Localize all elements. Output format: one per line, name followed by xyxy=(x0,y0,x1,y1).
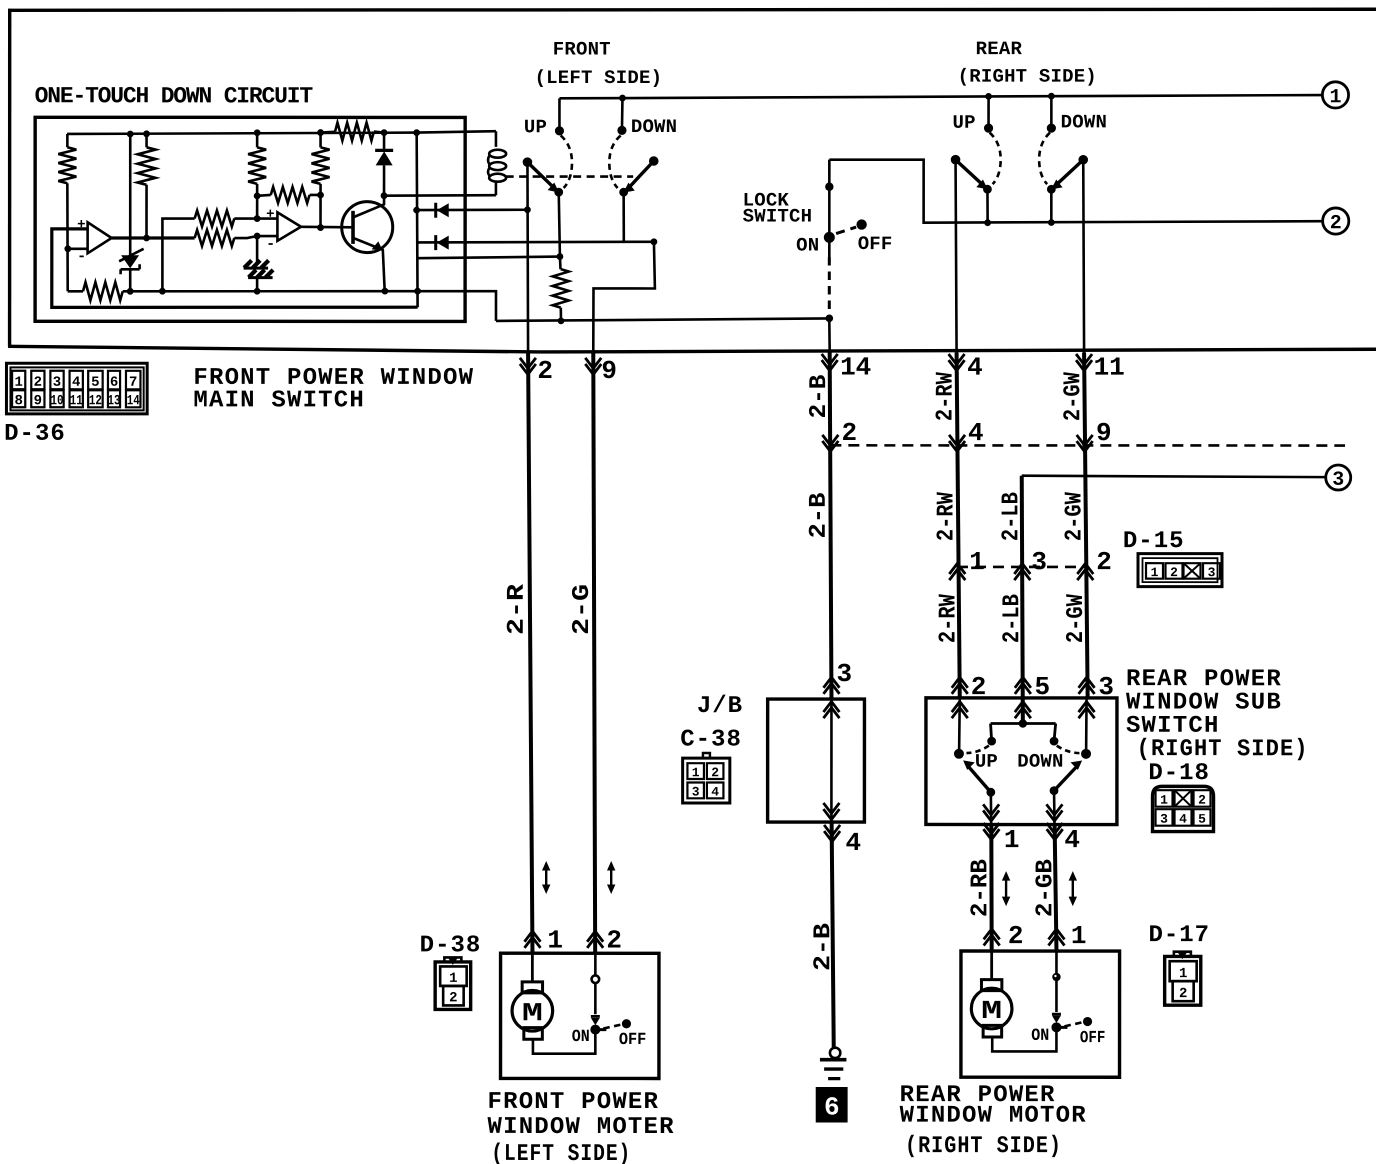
svg-text:3: 3 xyxy=(1160,812,1168,827)
rear power window motor OFF contact xyxy=(1064,1023,1081,1027)
front power window motor motor M xyxy=(531,953,534,982)
svg-text:2-B: 2-B xyxy=(810,923,837,971)
rear power window motor box xyxy=(961,951,1120,1077)
svg-text:9: 9 xyxy=(601,356,617,386)
rear left pole xyxy=(951,155,961,165)
svg-text:8: 8 xyxy=(14,393,22,409)
svg-text:DOWN: DOWN xyxy=(1061,111,1107,133)
svg-text:4: 4 xyxy=(711,785,719,800)
pin 9 mark (front switch) xyxy=(585,358,601,375)
svg-text:2-GW: 2-GW xyxy=(1063,594,1090,644)
svg-text:ONE-TOUCH DOWN CIRCUIT: ONE-TOUCH DOWN CIRCUIT xyxy=(35,83,314,109)
sub switch UP movable contact xyxy=(967,765,991,793)
connector D-36 xyxy=(6,363,147,414)
svg-text:FRONT POWER: FRONT POWER xyxy=(488,1089,660,1116)
rear dashed arc DOWN xyxy=(1039,133,1050,185)
svg-text:5: 5 xyxy=(1198,812,1206,827)
svg-text:7: 7 xyxy=(129,375,137,391)
svg-text:2: 2 xyxy=(1179,986,1187,1002)
UP contact column with resistor RS xyxy=(559,192,560,256)
terminal 3 xyxy=(1326,465,1351,490)
right vertical node wire xyxy=(413,129,420,136)
sub switch UP fixed contact xyxy=(987,737,996,746)
dashed arc DOWN xyxy=(609,135,620,188)
sub switch dashed arc right xyxy=(1057,746,1080,754)
svg-text:6: 6 xyxy=(824,1093,840,1123)
rail C xyxy=(496,318,829,321)
svg-text:+: + xyxy=(77,217,85,233)
svg-text:10: 10 xyxy=(50,393,63,409)
wire 2-GB xyxy=(1055,825,1057,952)
svg-text:2-RW: 2-RW xyxy=(933,372,960,422)
svg-text:4: 4 xyxy=(968,418,984,448)
resistor R2 xyxy=(143,130,150,137)
ground symbol xyxy=(830,1048,840,1058)
DOWN contact column xyxy=(622,192,625,242)
op-amp U2 input wires xyxy=(257,217,277,220)
svg-text:UP: UP xyxy=(524,116,547,138)
op-amp U1 inverting input wire xyxy=(68,247,88,250)
svg-text:2: 2 xyxy=(1170,565,1178,580)
front power window motor ON contact xyxy=(590,1025,600,1035)
pin 4 mark (row) xyxy=(949,435,965,452)
svg-text:2-GB: 2-GB xyxy=(1032,859,1059,917)
pin 14 mark xyxy=(822,354,838,371)
svg-text:2-LB: 2-LB xyxy=(999,594,1026,643)
pin 2 mark (row) xyxy=(822,435,838,452)
bottom rail A xyxy=(123,291,496,321)
op-amp U2 xyxy=(277,212,301,241)
svg-text:2: 2 xyxy=(841,418,857,448)
svg-text:(RIGHT SIDE): (RIGHT SIDE) xyxy=(958,66,1097,88)
pin 5 mark (sub top) xyxy=(1015,677,1031,694)
svg-text:14: 14 xyxy=(840,353,871,383)
svg-text:3: 3 xyxy=(53,375,61,391)
pin 11 mark xyxy=(1076,354,1092,371)
connector D-18 xyxy=(1153,786,1214,831)
resistor R1 xyxy=(66,134,69,147)
svg-text:3: 3 xyxy=(692,785,700,800)
svg-text:WINDOW MOTER: WINDOW MOTER xyxy=(488,1114,675,1141)
svg-text:1: 1 xyxy=(449,971,457,987)
staircase wire to 2-G xyxy=(593,242,655,352)
front UP contact xyxy=(558,98,561,131)
svg-text:1: 1 xyxy=(1329,86,1341,109)
svg-text:ON: ON xyxy=(1031,1027,1049,1046)
op-amp U2 output wire xyxy=(301,225,353,228)
svg-text:WINDOW MOTOR: WINDOW MOTOR xyxy=(900,1103,1087,1130)
pin 4 mark (J/B bottom) xyxy=(824,825,840,842)
rear pole columns down xyxy=(955,160,956,353)
svg-text:REAR: REAR xyxy=(976,38,1023,60)
collector node wire to coil xyxy=(384,194,496,197)
svg-text:2-RB: 2-RB xyxy=(967,859,994,917)
rear power window motor ON contact xyxy=(1051,1022,1061,1032)
diode D1 xyxy=(381,129,388,136)
svg-text:9: 9 xyxy=(34,393,42,409)
movable contact DOWN xyxy=(627,161,654,190)
connector D-15 xyxy=(1138,554,1222,587)
resistor R8 xyxy=(195,230,235,246)
resistor R9 (top right horizontal) xyxy=(321,130,336,133)
wire 2-B (upper) xyxy=(830,352,832,699)
node op-amp1 inverting input xyxy=(64,245,71,252)
svg-text:(RIGHT SIDE): (RIGHT SIDE) xyxy=(905,1133,1062,1160)
svg-text:D-36: D-36 xyxy=(4,421,66,448)
svg-text:1: 1 xyxy=(547,925,563,955)
border frame top xyxy=(8,9,1376,11)
resistor R4 xyxy=(317,129,324,136)
pin 2 mark (D-15) xyxy=(1077,564,1093,581)
svg-text:MAIN SWITCH: MAIN SWITCH xyxy=(193,387,365,414)
svg-text:2: 2 xyxy=(1096,547,1112,577)
svg-text:3: 3 xyxy=(1031,547,1047,577)
pin 4 mark (sub bottom) xyxy=(1047,823,1063,840)
front power window motor OFF contact xyxy=(603,1025,620,1029)
svg-text:J/B: J/B xyxy=(697,693,743,720)
svg-text:11: 11 xyxy=(1094,353,1125,383)
lock switch ON contact xyxy=(824,232,835,243)
svg-text:M: M xyxy=(522,998,543,1028)
wire from box to UP contact column xyxy=(417,257,560,259)
svg-text:1: 1 xyxy=(1071,921,1087,951)
sub switch left pole xyxy=(954,749,964,759)
rear right pole xyxy=(1078,155,1088,165)
dashed connector row xyxy=(830,444,1345,447)
updown arrow (2-R) xyxy=(545,868,547,887)
ground ref box 6 xyxy=(816,1087,848,1123)
front power window motor box xyxy=(501,953,659,1078)
svg-text:+: + xyxy=(266,207,274,223)
wire 2-G xyxy=(593,352,595,953)
svg-text:9: 9 xyxy=(1096,418,1112,448)
svg-text:M: M xyxy=(981,996,1002,1026)
svg-text:1: 1 xyxy=(1151,565,1159,580)
lock switch top wire to terminal 2 xyxy=(829,160,1322,223)
sub switch pole feed columns xyxy=(959,698,1086,749)
rear power window motor internal wire xyxy=(992,1027,1056,1051)
svg-text:14: 14 xyxy=(127,393,140,409)
wire 2-GW (upper) xyxy=(1084,352,1088,698)
svg-text:1: 1 xyxy=(14,375,22,391)
svg-text:4: 4 xyxy=(846,828,862,858)
svg-text:2-RW: 2-RW xyxy=(935,594,962,644)
connector D-17 xyxy=(1174,952,1191,956)
pin 2 mark (sub top) xyxy=(952,677,968,694)
zener column wire xyxy=(129,134,132,255)
front DOWN contact xyxy=(621,98,624,130)
border frame left xyxy=(8,9,12,347)
svg-text:2-G: 2-G xyxy=(569,584,596,635)
svg-text:1: 1 xyxy=(692,765,700,780)
pin 4 mark xyxy=(949,354,965,371)
wire 2-RB xyxy=(989,825,993,952)
movable contact UP xyxy=(527,162,556,190)
svg-text:12: 12 xyxy=(89,393,102,409)
svg-text:2-LB: 2-LB xyxy=(998,492,1025,541)
zener diode Z1 xyxy=(121,255,139,268)
pin 1 mark (rear motor) xyxy=(1048,929,1064,946)
terminal 1 xyxy=(1322,82,1348,108)
resistor R7 xyxy=(195,211,235,227)
svg-text:1: 1 xyxy=(1179,966,1187,982)
op-amp U1 output wire xyxy=(112,236,195,239)
svg-text:2-B: 2-B xyxy=(806,375,833,419)
updown arrow (2-G) xyxy=(610,868,612,887)
pin 3 mark (D-15) xyxy=(1014,564,1030,581)
one-touch circuit box xyxy=(35,117,465,321)
pin 1 mark (front motor) xyxy=(524,931,540,948)
wire 2-B (lower) xyxy=(832,822,834,1047)
upper diode D2 row xyxy=(413,207,420,214)
svg-text:D-17: D-17 xyxy=(1148,922,1210,949)
lock switch fixed contact xyxy=(828,160,831,238)
op-amp U1 xyxy=(88,222,112,253)
rear power window motor motor M xyxy=(990,951,993,980)
svg-text:2-RW: 2-RW xyxy=(934,492,961,542)
svg-text:4: 4 xyxy=(72,375,80,391)
left pole column down xyxy=(526,162,529,352)
svg-text:DOWN: DOWN xyxy=(631,116,677,138)
front right pole xyxy=(649,156,659,166)
rear dashed arc UP xyxy=(990,133,1001,185)
pin 2 mark (front motor) xyxy=(587,931,603,948)
sub switch output columns xyxy=(990,792,993,824)
wire 2-R xyxy=(528,352,533,953)
svg-text:2: 2 xyxy=(971,672,987,702)
mechanical link dashed xyxy=(506,175,634,178)
svg-text:2: 2 xyxy=(34,375,42,391)
svg-text:3: 3 xyxy=(837,659,853,689)
rear power window motor circuit breaker xyxy=(1055,951,1058,973)
resistor R7 riser xyxy=(162,219,194,292)
svg-text:(LEFT SIDE): (LEFT SIDE) xyxy=(491,1141,631,1164)
rear UP contact xyxy=(987,96,990,128)
svg-text:D-15: D-15 xyxy=(1123,528,1185,555)
connector D-38 xyxy=(444,957,461,961)
dashed arc UP xyxy=(561,135,572,188)
sub switch dashed arc left xyxy=(966,746,989,754)
svg-text:11: 11 xyxy=(70,393,83,409)
svg-text:C-38: C-38 xyxy=(680,726,742,753)
connector C-38 xyxy=(703,753,710,758)
svg-text:DOWN: DOWN xyxy=(1017,751,1063,773)
svg-text:2: 2 xyxy=(1198,793,1206,808)
resistor R3 xyxy=(254,129,261,136)
svg-text:-: - xyxy=(266,236,275,253)
junction box J/B C-38 xyxy=(768,699,865,822)
svg-text:1: 1 xyxy=(969,547,985,577)
svg-text:OFF: OFF xyxy=(858,233,893,255)
svg-text:2: 2 xyxy=(537,356,553,386)
svg-text:4: 4 xyxy=(1179,812,1187,827)
wire 2-RW (upper) xyxy=(956,352,959,698)
svg-text:(LEFT SIDE): (LEFT SIDE) xyxy=(535,67,663,89)
svg-text:5: 5 xyxy=(1035,672,1051,702)
pin 3 mark (sub top) xyxy=(1079,677,1095,694)
svg-text:2: 2 xyxy=(1008,921,1024,951)
pin 1 mark (sub bottom) xyxy=(983,823,999,840)
svg-text:UP: UP xyxy=(975,751,998,773)
svg-text:2-GW: 2-GW xyxy=(1062,492,1089,542)
svg-text:D-18: D-18 xyxy=(1148,760,1210,787)
resistor R6 xyxy=(257,194,271,198)
pin 3 mark (J/B top) xyxy=(823,677,839,694)
svg-text:ON: ON xyxy=(572,1028,590,1047)
svg-text:UP: UP xyxy=(953,112,976,134)
front power window motor internal wire xyxy=(533,1030,595,1054)
dashed connector row D-15 xyxy=(957,566,1086,569)
front left pole xyxy=(523,157,533,167)
updown arrow xyxy=(1005,878,1007,899)
svg-text:5: 5 xyxy=(91,375,99,391)
svg-text:2: 2 xyxy=(606,925,622,955)
main switch assembly bottom border xyxy=(8,346,1376,352)
svg-text:2-R: 2-R xyxy=(504,583,531,635)
svg-text:4: 4 xyxy=(967,353,983,383)
svg-text:OFF: OFF xyxy=(619,1031,647,1050)
svg-text:FRONT: FRONT xyxy=(553,38,611,60)
svg-text:1: 1 xyxy=(1004,825,1020,855)
svg-text:SWITCH: SWITCH xyxy=(743,206,813,228)
svg-text:3: 3 xyxy=(1098,672,1114,702)
svg-text:2: 2 xyxy=(711,765,719,780)
pin 2 mark (rear motor) xyxy=(984,929,1000,946)
sub switch right pole xyxy=(1081,749,1091,759)
coil L1 xyxy=(495,131,498,147)
svg-text:-: - xyxy=(77,248,86,265)
wire to terminal 3 xyxy=(1022,476,1326,477)
svg-text:13: 13 xyxy=(108,393,121,409)
pin 2 mark (front switch) xyxy=(520,358,536,375)
top rail to terminal 1 xyxy=(559,95,1322,99)
rear DOWN contact xyxy=(1050,96,1053,128)
svg-text:OFF: OFF xyxy=(1080,1029,1106,1048)
svg-text:ON: ON xyxy=(796,235,819,257)
terminal 2 xyxy=(1323,208,1349,234)
svg-text:2: 2 xyxy=(1330,212,1342,235)
resistor R5 (feedback, bottom left) xyxy=(68,290,83,293)
svg-text:2-GW: 2-GW xyxy=(1060,372,1087,422)
lower diode D3 row xyxy=(417,240,654,243)
top rail wire xyxy=(67,131,496,134)
sub switch DOWN movable contact xyxy=(1054,765,1079,791)
lock switch dashed column xyxy=(828,237,831,257)
svg-text:1: 1 xyxy=(1160,793,1168,808)
svg-text:D-38: D-38 xyxy=(420,932,482,959)
pin 9 mark (row) xyxy=(1077,435,1093,452)
svg-text:2: 2 xyxy=(449,990,457,1006)
svg-text:3: 3 xyxy=(1332,469,1344,492)
lock switch OFF contact xyxy=(856,219,866,229)
svg-text:6: 6 xyxy=(110,375,118,391)
wire through J/B xyxy=(830,699,833,822)
rear sub switch box xyxy=(926,698,1117,825)
updown arrow xyxy=(1072,878,1074,899)
wire 2-LB xyxy=(1022,476,1023,724)
front power window motor circuit breaker xyxy=(594,953,597,975)
rear contact columns to rail 2 xyxy=(986,189,989,223)
svg-text:2-B: 2-B xyxy=(806,493,833,539)
chassis hatch symbol xyxy=(244,260,269,268)
svg-text:4: 4 xyxy=(1064,825,1080,855)
sub switch feed tee xyxy=(991,724,1056,742)
sub switch DOWN fixed contact xyxy=(1050,737,1059,746)
pin 1 mark (D-15) xyxy=(949,563,965,580)
transistor Q1 xyxy=(342,202,393,253)
svg-text:3: 3 xyxy=(1208,565,1216,580)
op-amp U1 noninverting input wire xyxy=(52,229,418,308)
svg-text:(RIGHT SIDE): (RIGHT SIDE) xyxy=(1137,736,1309,763)
